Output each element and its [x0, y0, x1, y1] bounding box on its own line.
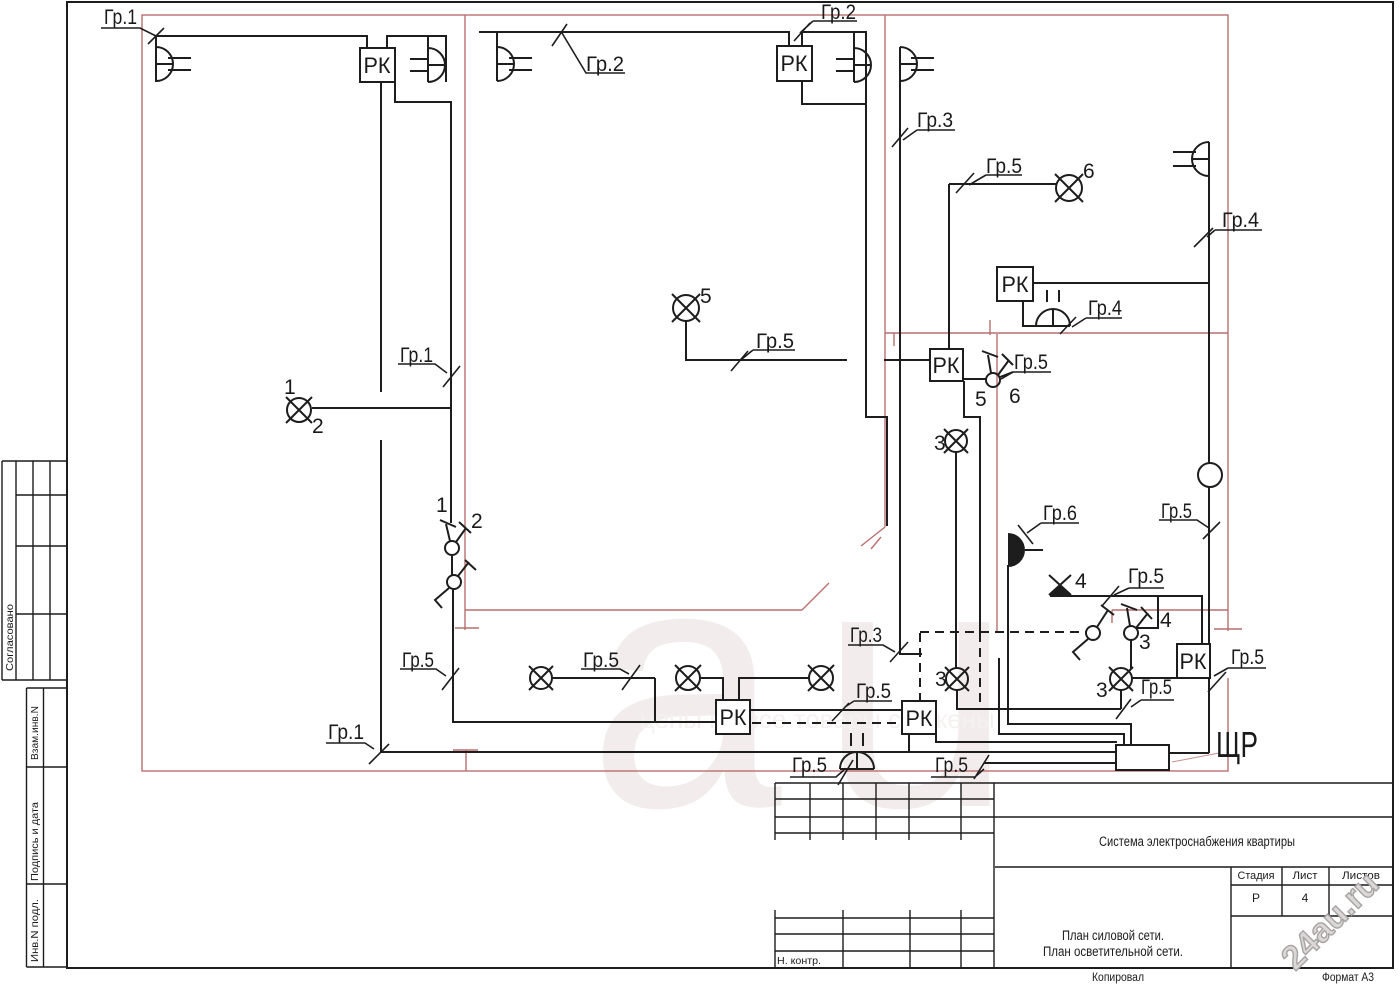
svg-text:РК: РК: [720, 705, 747, 730]
svg-text:Гр.4: Гр.4: [1088, 297, 1122, 320]
svg-text:3: 3: [1139, 631, 1151, 654]
svg-text:РК: РК: [364, 53, 391, 78]
svg-text:Лист: Лист: [1293, 870, 1318, 882]
svg-text:Гр.5: Гр.5: [1128, 565, 1164, 588]
svg-text:Взам.инв.N: Взам.инв.N: [29, 706, 41, 760]
svg-text:Гр.6: Гр.6: [1043, 502, 1077, 525]
svg-text:Стадия: Стадия: [1238, 870, 1275, 882]
svg-text:1: 1: [436, 494, 448, 517]
svg-text:План силовой сети.: План силовой сети.: [1062, 928, 1164, 943]
svg-text:Гр.5: Гр.5: [856, 680, 891, 703]
svg-text:Формат А3: Формат А3: [1322, 972, 1374, 984]
svg-text:5: 5: [975, 388, 987, 411]
svg-text:Н. контр.: Н. контр.: [777, 955, 821, 967]
svg-text:Согласовано: Согласовано: [4, 604, 16, 671]
svg-text:Гр.5: Гр.5: [402, 649, 434, 672]
svg-text:ЩР: ЩР: [1216, 724, 1258, 765]
svg-text:Гр.5: Гр.5: [583, 649, 619, 672]
svg-text:Гр.5: Гр.5: [1161, 500, 1192, 523]
svg-text:Гр.5: Гр.5: [756, 330, 794, 353]
svg-text:Гр.4: Гр.4: [1222, 209, 1259, 232]
svg-text:Гр.3: Гр.3: [850, 624, 882, 647]
svg-text:2: 2: [312, 415, 324, 438]
svg-text:Система электроснабжения кварт: Система электроснабжения квартиры: [1099, 834, 1295, 849]
svg-text:Копировал: Копировал: [1092, 972, 1144, 984]
svg-text:РК: РК: [933, 353, 960, 378]
svg-text:Гр.5: Гр.5: [1231, 646, 1264, 669]
svg-text:2: 2: [471, 510, 483, 533]
svg-text:6: 6: [1083, 160, 1095, 183]
svg-text:Р: Р: [1252, 891, 1260, 905]
svg-text:Гр.5: Гр.5: [935, 754, 968, 777]
svg-text:РК: РК: [781, 51, 808, 76]
svg-text:3: 3: [1096, 679, 1108, 702]
svg-text:РК: РК: [1002, 272, 1029, 297]
svg-text:Гр.5: Гр.5: [986, 155, 1022, 178]
svg-text:Гр.5: Гр.5: [792, 754, 827, 777]
svg-text:РК: РК: [1180, 649, 1207, 674]
svg-text:Подпись и дата: Подпись и дата: [29, 802, 41, 881]
svg-text:Гр.5: Гр.5: [1141, 676, 1172, 699]
svg-text:4: 4: [1160, 609, 1172, 632]
svg-text:Гр.2: Гр.2: [586, 53, 624, 76]
svg-text:Гр.1: Гр.1: [400, 344, 433, 367]
svg-text:цены на все товары снижены: цены на все товары снижены: [640, 704, 995, 734]
svg-text:5: 5: [700, 285, 712, 308]
svg-text:1: 1: [284, 376, 296, 399]
svg-text:РК: РК: [906, 706, 933, 731]
svg-text:4: 4: [1302, 891, 1309, 905]
svg-text:6: 6: [1009, 385, 1021, 408]
svg-text:3: 3: [934, 432, 946, 455]
svg-text:Гр.1: Гр.1: [104, 6, 137, 29]
svg-text:Гр.5: Гр.5: [1014, 351, 1048, 374]
svg-text:Гр.2: Гр.2: [821, 1, 856, 24]
svg-text:4: 4: [1075, 570, 1087, 593]
svg-text:Гр.3: Гр.3: [917, 109, 953, 132]
svg-text:План осветительной сети.: План осветительной сети.: [1043, 944, 1183, 959]
svg-text:au: au: [588, 491, 1051, 880]
svg-text:Гр.1: Гр.1: [328, 721, 364, 744]
svg-text:3: 3: [935, 668, 947, 691]
svg-text:Инв.N подл.: Инв.N подл.: [29, 899, 41, 962]
